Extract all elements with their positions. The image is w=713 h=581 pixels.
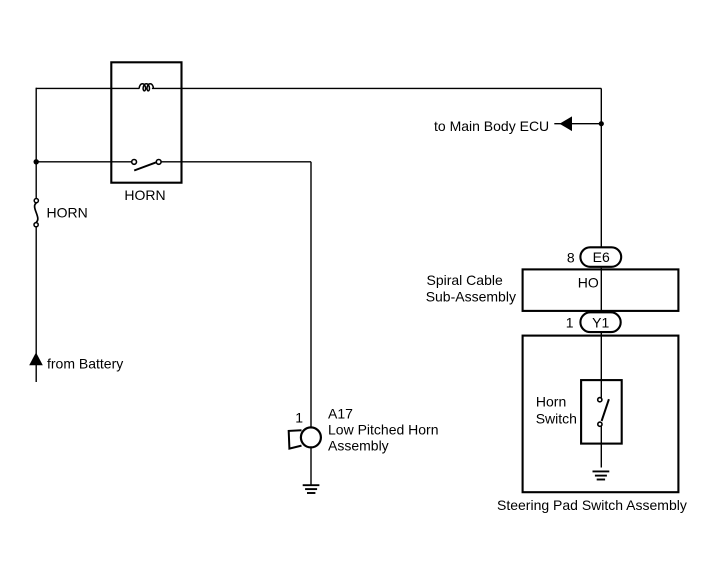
svg-text:HORN: HORN [47,205,88,221]
svg-text:8: 8 [567,249,575,265]
wire: left vertical battery feed (fuse to bottom) [35,227,37,382]
svg-text:Sub-Assembly: Sub-Assembly [426,288,516,304]
svg-text:Horn: Horn [536,394,566,410]
arrow: from Battery [29,352,43,365]
relay switch contacts [132,160,161,171]
ground (steering pad switch) [593,471,610,479]
svg-text:E6: E6 [593,249,610,265]
wire: horn switch to ground [600,426,602,467]
horn switch box [581,380,622,444]
horn A17 symbol [289,427,321,448]
junction: ECU branch on right vertical [599,121,604,126]
svg-text:to Main Body ECU: to Main Body ECU [434,118,549,134]
svg-text:Switch: Switch [536,411,577,427]
wire: right vertical down to connector E6 [600,88,602,246]
svg-text:Y1: Y1 [592,315,609,331]
wire: middle vertical down to horn [310,162,312,427]
wire: through spiral cable box (E6 to Y1) [600,268,602,312]
svg-text:from Battery: from Battery [47,355,123,371]
ground (horn) [303,485,320,493]
svg-text:Assembly: Assembly [328,438,389,454]
svg-text:Low Pitched Horn: Low Pitched Horn [328,422,439,438]
connector E6 [580,247,621,266]
spiral cable sub-assembly box [523,269,679,311]
wire: left vertical battery feed (upper part to fuse) [35,88,37,199]
arrow: to Main Body ECU [560,116,573,131]
steering pad switch assembly box [523,336,679,493]
wire: horn to ground [310,448,312,485]
svg-text:Steering Pad Switch Assembly: Steering Pad Switch Assembly [497,497,687,513]
horn switch contacts [598,398,609,427]
wire: top horizontal from battery line to right vertical [36,87,601,89]
fuse HORN [34,199,38,227]
wire: relay switch horizontal run to middle vertical [36,161,311,163]
connector Y1 [580,312,620,332]
svg-text:1: 1 [566,315,574,331]
relay coil [139,84,153,91]
svg-text:HO: HO [578,274,599,290]
wire: Y1 down to horn switch [600,333,602,398]
wire: branch to Main Body ECU [554,123,601,125]
svg-text:Spiral Cable: Spiral Cable [427,272,503,288]
svg-text:1: 1 [295,410,303,426]
svg-text:HORN: HORN [124,187,165,203]
junction: left vertical / switch wire [34,159,39,164]
svg-text:A17: A17 [328,406,353,422]
relay box HORN [111,62,181,182]
